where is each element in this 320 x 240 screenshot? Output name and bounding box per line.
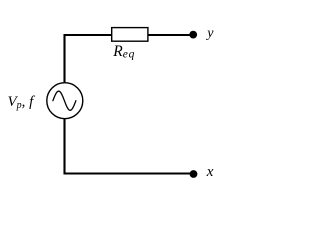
svg-text:y: y bbox=[205, 26, 214, 41]
ac source sine wave bbox=[53, 91, 76, 110]
svg-text:Vp, f: Vp, f bbox=[8, 94, 36, 111]
wire: bottom horizontal from corner to node x bbox=[64, 172, 191, 174]
ac source Vp,f circle bbox=[47, 83, 83, 119]
wire: top horizontal from corner to resistor left bbox=[64, 34, 112, 36]
resistor Req bbox=[112, 28, 148, 42]
wire: vertical from top corner down to source top bbox=[63, 34, 65, 83]
wire: vertical from source bottom to bottom corner bbox=[63, 119, 65, 175]
node y terminal dot bbox=[189, 31, 197, 39]
node x terminal dot bbox=[190, 170, 198, 178]
svg-text:x: x bbox=[206, 164, 214, 180]
wire: resistor right to node y bbox=[148, 34, 191, 36]
